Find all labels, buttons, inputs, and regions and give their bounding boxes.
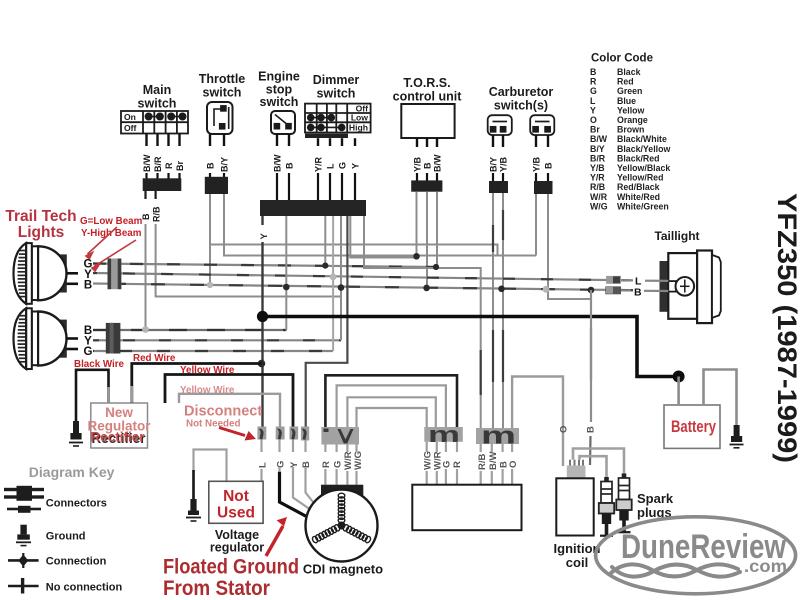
heavy black battery feed wire [263,317,679,377]
magneto hub dot [338,522,346,530]
HT lead to left spark plug [580,456,607,477]
svg-text:W/G: W/G [353,451,364,470]
svg-text:B: B [141,213,151,220]
CDI connector (right m) [476,423,519,450]
bulb [676,277,695,296]
new regulator rectifier box [91,403,148,448]
svg-text:Black Wire: Black Wire [74,359,125,370]
svg-text:Yellow/Black: Yellow/Black [617,163,670,173]
svg-text:Battery: Battery [671,418,717,436]
svg-text:Y/B: Y/B [413,156,423,172]
throttle wire B down then right long run [210,194,498,285]
svg-text:switch: switch [203,86,242,100]
svg-text:.com: .com [744,556,787,576]
svg-text:YFZ350 (1987-1999): YFZ350 (1987-1999) [772,193,800,463]
svg-text:G=Low Beam: G=Low Beam [80,216,143,227]
magneto lead connector G [276,427,285,440]
svg-text:Ignition: Ignition [554,541,601,556]
watermark waves [610,564,740,576]
black wire from regulator to ground [76,370,109,421]
HT lead to right spark plug [573,449,624,474]
T.O.R.S. connector block [411,180,442,191]
dimmer switch S4 label [313,73,360,101]
wires B and R/B leaving main connector [146,191,156,199]
svg-text:L: L [257,462,268,468]
main switch pin stubs [147,134,180,147]
svg-text:Red: Red [617,77,634,87]
svg-text:Orange: Orange [617,115,648,125]
svg-text:Brown: Brown [617,125,644,135]
svg-text:coil: coil [566,555,588,570]
svg-text:R: R [321,461,332,468]
junction dots on mesh [283,253,594,293]
stator coils [311,493,371,543]
dimmer HIGH row contact dots [308,124,345,130]
floated ground arrow [266,517,287,556]
floated ground red text [163,556,299,600]
ignition coil cap ticks [570,460,583,466]
svg-text:No connection: No connection [46,581,123,593]
svg-text:From Stator: From Stator [163,577,270,600]
throttle switch pin stubs [210,134,224,146]
spark plug P1 [599,477,614,536]
svg-text:Y/R: Y/R [590,173,605,183]
svg-text:B/W: B/W [488,452,499,471]
dimmer LOW row contact dots [308,115,335,121]
main switch S1 label [138,83,177,111]
T.O.R.S. control unit box [401,104,454,138]
svg-text:W/R: W/R [590,192,608,202]
wire Y below connector into magneto [293,440,310,510]
svg-text:G: G [338,162,348,169]
svg-text:Br: Br [590,125,600,135]
T.O.R.S. wire labels Y/B B B/W [413,154,443,172]
magneto lead connector B [301,427,309,441]
svg-text:Not Needed: Not Needed [186,419,240,430]
svg-text:B: B [301,461,312,468]
engine stop wires into bus bar [277,173,289,200]
svg-text:Disconnect: Disconnect [184,404,262,420]
reflector bowl [38,246,67,300]
headlamp H1 wire labels G Y B [84,258,93,291]
svg-text:control unit: control unit [393,90,463,104]
ground symbol voltage regulator [186,499,201,521]
svg-text:B/W: B/W [590,134,608,144]
Trail Tech Lights red title [5,208,76,241]
svg-text:Yellow/Red: Yellow/Red [617,173,663,183]
ignition coil body [556,478,593,535]
svg-text:Dimmer: Dimmer [313,73,360,87]
svg-text:Floated Ground: Floated Ground [163,556,299,579]
svg-text:B: B [586,426,597,433]
dimmer wire labels Y/R L G Y [314,156,361,172]
svg-text:R: R [590,77,597,87]
light junction dots [142,274,549,333]
W/G wire loop to CDI connector [357,408,427,427]
lamp socket block [52,254,67,292]
carburetor switch SW-A body [488,115,512,135]
headlamp H2 connector [106,323,121,354]
carburetor connector block A [489,181,508,193]
key no-connection symbol [8,578,39,594]
dimmer connector strip under table [305,134,348,138]
yellow wire 1 from regulator to Y pin [165,375,293,428]
svg-text:R/B: R/B [152,206,162,222]
battery negative lead [677,377,680,406]
lower headlight bus wire Y [93,339,341,341]
not used red text [217,488,255,522]
svg-text:R: R [164,162,174,169]
ignition coil label [554,541,601,570]
headlight bus wire B / taillight B run [93,284,633,291]
svg-text:L: L [590,96,596,106]
svg-text:Color Code: Color Code [591,53,653,65]
engine stop switch body [271,111,295,134]
svg-text:Yellow: Yellow [617,105,645,115]
svg-text:G: G [332,461,343,468]
W/R wire loop to CDI connector [347,397,435,427]
lamp pin stubs [67,272,79,275]
rim rings [32,246,38,300]
T.O.R.S. wires into connector [417,173,437,181]
yellow wire 2 from regulator to G pin [179,394,280,427]
svg-text:Y/B: Y/B [499,156,509,172]
T.O.R.S. wire B down [426,192,428,288]
wire G below connector to stator (floated ground, black) [278,440,280,472]
voltage regulator label [210,528,264,555]
fluted lens [14,243,27,304]
throttle wire B/Y down then right [224,194,536,256]
R wire loop to CDI connector [325,375,457,427]
ground symbol regulator [69,421,83,446]
main switch S1 contact table [121,111,188,134]
CDI wires into unit box [427,442,457,485]
T.O.R.S. control unit U1 label [393,76,463,104]
battery positive lead to ground [704,370,737,426]
svg-text:Taillight: Taillight [654,229,699,243]
svg-text:B: B [544,162,554,169]
carb wire B/Y down to magneto connector [492,193,494,428]
taillight connector B [605,286,621,294]
svg-text:B: B [84,279,92,291]
svg-text:Diagram Key: Diagram Key [29,464,115,480]
svg-text:Black/Yellow: Black/Yellow [617,144,670,154]
svg-text:switch: switch [260,95,299,109]
battery box [664,405,720,448]
dimmer switch contact table [305,104,371,133]
magneto connector bar (stator leads) [321,427,359,445]
carb wire Y/B down to magneto connector [502,193,504,428]
DuneReview watermark ellipse [596,517,796,594]
svg-text:B/W: B/W [273,154,283,172]
wire B below connector into magneto [306,441,314,503]
stator wire labels R G W/R W/G [321,451,364,470]
headlight bus wire G (upper light) [93,264,436,268]
main switch wires into connector [147,173,180,179]
CDI wires right group into unit box [481,444,512,485]
engine stop wire labels B/W B [273,154,295,172]
svg-text:R/B: R/B [477,454,488,471]
B wire down to ignition coil [590,290,592,422]
harness wire L drop (light) [332,216,334,351]
svg-text:R: R [452,461,463,468]
taillight lead-in wires [621,280,668,291]
headlamp H1 (upper) [14,243,79,304]
headlamp H2 wire labels B Y G [84,325,93,358]
svg-text:Black/Red: Black/Red [617,153,660,163]
svg-text:T.O.R.S.: T.O.R.S. [403,76,450,90]
svg-text:W/G: W/G [590,201,608,211]
harness wire drop to R/B pin [364,216,481,428]
carburetor wire labels B/Y Y/B Y/B B [489,156,554,172]
svg-text:switch: switch [138,97,177,111]
CDI unit box [412,485,521,531]
carburetor switches label [489,85,554,113]
svg-text:regulator: regulator [210,541,264,555]
svg-text:High: High [349,122,368,132]
spark plugs label [637,491,674,520]
headlight bus wire Y / taillight L run [93,273,633,280]
ground symbol battery [730,425,744,448]
svg-text:Not: Not [223,488,249,505]
svg-text:B/Y: B/Y [590,144,605,154]
harness wire G drop [340,216,342,340]
headlamp H2 (lower) [14,308,79,369]
key connectors symbol [4,486,44,513]
svg-text:G: G [590,86,597,96]
svg-text:Y: Y [289,461,300,468]
svg-text:R/B: R/B [590,182,605,192]
svg-text:B/W: B/W [142,154,152,172]
svg-text:G: G [84,346,93,358]
svg-text:Y/R: Y/R [314,156,324,172]
carburetor wires into connectors [493,173,548,182]
engine stop switch contacts [274,115,291,129]
taillight wire labels L B [634,276,642,299]
main switch connector block [143,178,182,191]
regulator red text [87,405,151,446]
svg-text:B/R: B/R [590,153,606,163]
throttle switch S2 body [207,102,233,134]
main switch ON-row contact dots [145,113,185,119]
svg-text:L: L [326,163,336,169]
magneto lead connector Y [290,427,299,440]
labels B R/B under main connector [141,206,162,222]
svg-text:switch(s): switch(s) [494,99,548,113]
taillight housing [660,251,721,324]
svg-text:Spark: Spark [637,491,674,506]
key ground symbol [16,525,31,546]
svg-text:Ground: Ground [46,531,86,543]
svg-text:Connection: Connection [46,556,107,568]
svg-text:Y/B: Y/B [532,156,542,172]
junction node at battery feed [673,371,685,383]
throttle wires into connector [210,173,224,178]
svg-text:B: B [590,67,596,77]
spark plug P2 [616,474,631,533]
wire from Not Used box to floated ground [194,450,227,482]
throttle switch S2 label [199,72,246,100]
junction dot red-wire crossing [258,360,266,368]
CDI wire labels R/B B/W B O [477,452,519,471]
O wire from CDI to ignition coil [512,377,563,467]
svg-text:Throttle: Throttle [199,72,246,86]
svg-text:B/Y: B/Y [489,157,499,172]
harness wire drop bend right [350,216,416,258]
carb wire B down then left join [548,194,591,299]
lower headlight bus wire G [93,350,333,352]
svg-text:Black: Black [617,67,641,77]
harness wire Y/R drop [324,216,326,266]
svg-text:B: B [206,162,216,169]
throttle connector block [205,177,228,194]
CDI wire labels W/G W/R G R [423,451,463,470]
wire B (main) down to lower headlight bus [145,224,147,330]
engine stop switch S3 label [258,70,300,110]
CDI magneto flywheel [306,490,378,562]
svg-text:Green: Green [617,86,642,96]
svg-text:Br: Br [175,161,185,171]
svg-text:Lights: Lights [18,224,65,241]
svg-text:O: O [508,461,519,468]
svg-text:CDI magneto: CDI magneto [303,562,383,577]
svg-text:Y/B: Y/B [590,163,605,173]
svg-text:B: B [285,162,295,169]
annotation arrows to G and Y [86,227,136,271]
svg-text:Used: Used [217,505,255,522]
svg-text:switch: switch [317,87,356,101]
harness bus bar connector [260,200,366,216]
carburetor connector block B [534,181,553,194]
svg-text:Rectifier: Rectifier [90,430,145,445]
svg-text:Off: Off [124,123,137,133]
svg-text:B/Y: B/Y [220,157,230,172]
carburetor switch SW-B body [530,115,554,135]
svg-text:B: B [423,162,433,169]
T.O.R.S. wire B/W down [436,192,438,267]
svg-text:White/Green: White/Green [617,201,669,211]
svg-text:Y: Y [351,163,361,169]
svg-text:Y-High Beam: Y-High Beam [81,228,142,239]
lower headlight bus wire B [93,329,286,331]
junction node at Y wire [257,311,268,322]
throttle switch internal contacts [214,106,229,129]
taillight connector L [606,276,621,284]
svg-text:B/W: B/W [433,154,443,172]
svg-text:Red/Black: Red/Black [617,182,660,192]
svg-text:Y: Y [590,105,596,115]
svg-text:Engine: Engine [258,70,300,84]
lens hatching [18,251,26,297]
svg-text:Carburetor: Carburetor [489,85,554,99]
main switch wire labels B/W B/R R Br [142,154,185,172]
svg-text:Connectors: Connectors [46,498,107,510]
svg-text:Y: Y [259,233,270,240]
svg-text:Main: Main [143,83,171,97]
G wire loop to CDI connector [337,385,446,427]
bulb socket [668,281,676,292]
svg-text:O: O [559,426,570,433]
svg-text:B/R: B/R [153,156,163,172]
key connection symbol [8,553,39,568]
magneto cap connector [321,485,363,495]
svg-text:Blue: Blue [617,96,636,106]
magneto lead connector L [257,427,266,440]
svg-text:B: B [634,286,642,298]
svg-text:White/Red: White/Red [617,192,660,202]
CDI connector (left m) [424,422,463,447]
svg-text:O: O [590,115,597,125]
magneto B wire up to bus bar [306,216,348,427]
red wire (black lead) from regulator [132,364,262,404]
throttle wire labels B B/Y [206,157,230,172]
svg-text:Trail Tech: Trail Tech [5,208,76,225]
arrow to disconnect joint [219,428,256,441]
harness wire drop to lower B bus [285,216,287,330]
carburetor pin stubs [493,135,548,147]
dimmer pin stubs [318,138,355,146]
dimmer wires into bus bar [318,173,355,200]
not used box [209,481,263,523]
magneto lead labels L G Y B [257,461,312,468]
svg-text:m: m [428,422,460,447]
T.O.R.S. wire Y/B down [416,192,418,257]
svg-text:Black/White: Black/White [617,134,667,144]
svg-text:Low: Low [351,113,368,123]
svg-text:On: On [124,112,136,122]
headlamp H1 connector [108,259,122,290]
harness wire Y (bus to junction to L connector) [261,216,263,225]
wire L below connector (disconnected stub) [260,440,262,482]
ignition coil cap [567,466,586,479]
stator wires down to magneto cap [325,445,356,485]
wire R/B (main) down then right [156,224,341,297]
svg-text:G: G [275,461,286,468]
engine stop pin stubs [277,134,289,146]
T.O.R.S. pin stubs [417,138,437,147]
annotation G=Low Beam Y-High Beam [80,216,143,239]
dark sheathing segments on carb feed wires [481,210,591,395]
carb wire Y/B (switch B) down to joint [535,194,537,256]
svg-text:m: m [481,423,516,450]
